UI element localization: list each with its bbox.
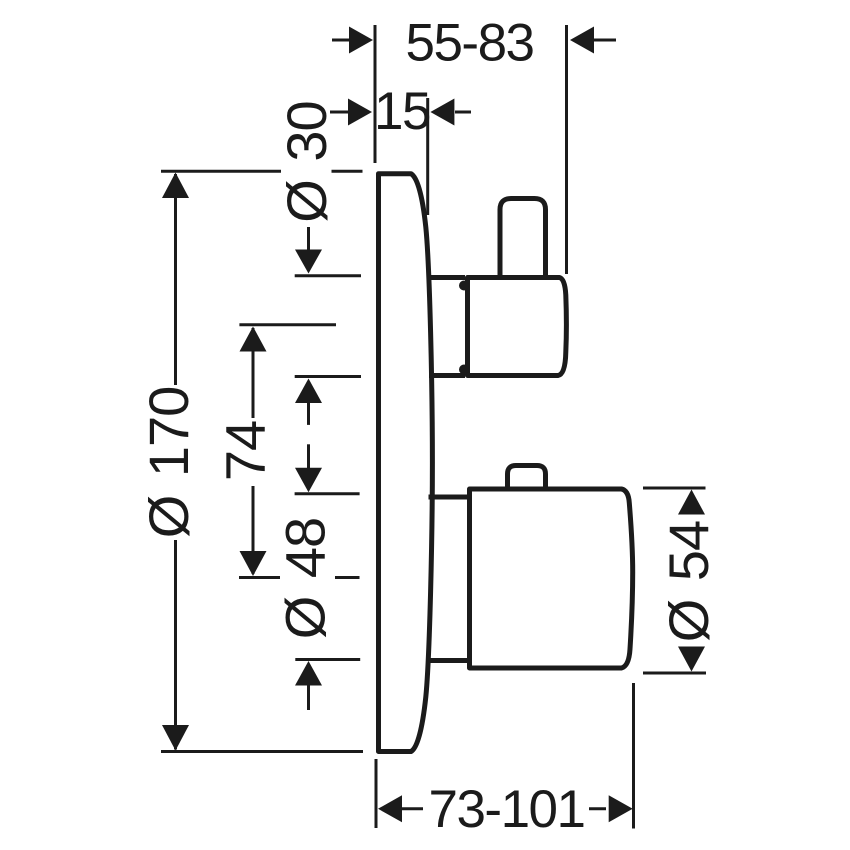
svg-text:55-83: 55-83 bbox=[405, 14, 533, 73]
svg-text:Ø 170: Ø 170 bbox=[137, 387, 200, 539]
svg-text:Ø 48: Ø 48 bbox=[273, 518, 336, 639]
svg-text:Ø 30: Ø 30 bbox=[275, 101, 338, 222]
svg-text:74: 74 bbox=[213, 421, 276, 481]
svg-text:73-101: 73-101 bbox=[428, 780, 584, 839]
svg-text:15: 15 bbox=[374, 82, 430, 141]
svg-text:Ø 54: Ø 54 bbox=[657, 521, 720, 642]
